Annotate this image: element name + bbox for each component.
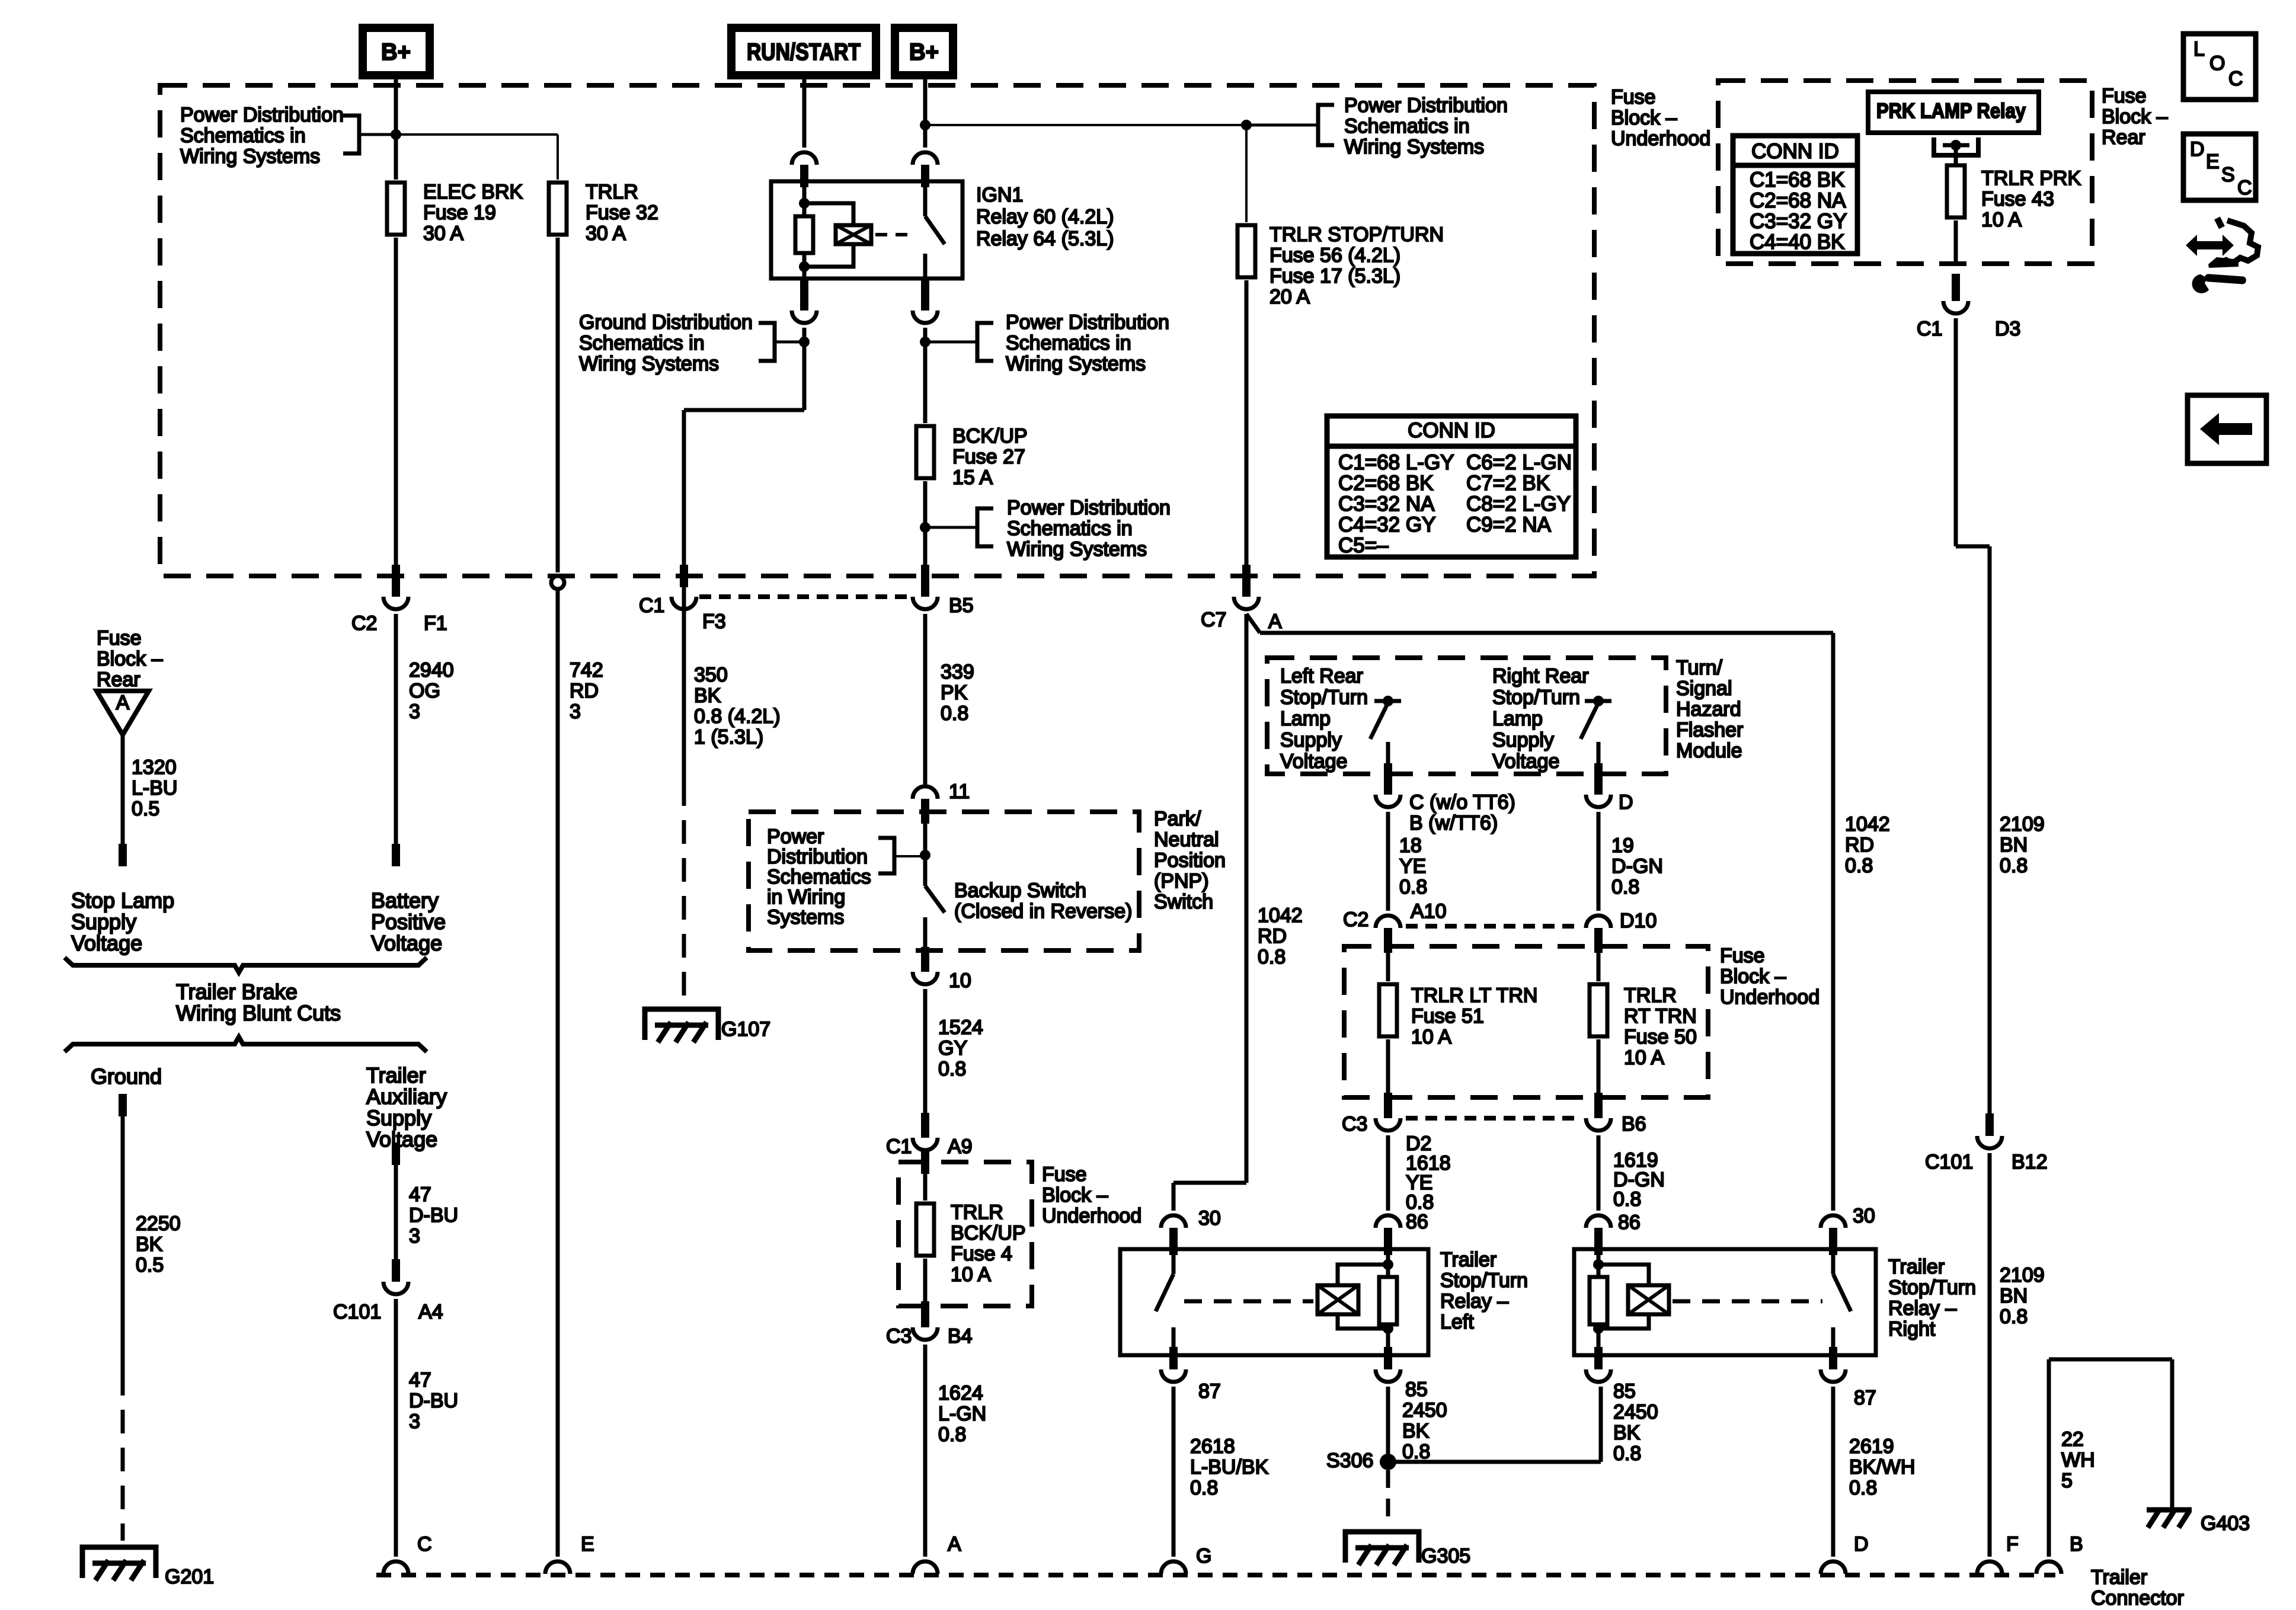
svg-text:C2=68 BK: C2=68 BK <box>1338 472 1434 495</box>
svg-text:G403: G403 <box>2201 1512 2250 1535</box>
svg-text:Underhood: Underhood <box>1611 127 1710 150</box>
connector terminal B <box>2036 1533 2083 1574</box>
backup switch dashed box <box>749 812 1139 950</box>
svg-text:30 A: 30 A <box>586 222 626 245</box>
svg-text:Turn/: Turn/ <box>1676 657 1723 679</box>
svg-text:0.8: 0.8 <box>1402 1441 1430 1463</box>
svg-text:1042: 1042 <box>1258 904 1303 927</box>
svg-text:Fuse 51: Fuse 51 <box>1411 1005 1484 1028</box>
svg-text:47: 47 <box>409 1369 431 1391</box>
wire 1042 RD right branch <box>1246 614 1890 1211</box>
svg-text:S306: S306 <box>1326 1449 1373 1472</box>
svg-text:A: A <box>1268 610 1282 633</box>
wire dashed to G107 <box>682 782 686 1007</box>
connector pin 85 relay right <box>1586 1347 1636 1403</box>
svg-text:2940: 2940 <box>409 659 454 681</box>
node splice S306 <box>1326 1449 1396 1472</box>
svg-text:BN: BN <box>2000 1285 2028 1307</box>
ground G305 <box>1345 1532 1470 1567</box>
svg-text:C4=32 GY: C4=32 GY <box>1338 513 1435 536</box>
wire fuse 50 down <box>1594 1039 1603 1118</box>
svg-text:Neutral: Neutral <box>1154 828 1219 851</box>
wire 2618 L-BU/BK 0.8 <box>1173 1387 1269 1557</box>
svg-text:10: 10 <box>949 969 971 992</box>
fuse block rear dashed box <box>1718 81 2092 264</box>
relay IGN1 box <box>771 181 962 279</box>
relay right coil resistor <box>1590 1250 1607 1355</box>
label Fuse Block - Underhood (backup fuse) <box>1042 1163 1141 1227</box>
svg-text:IGN1: IGN1 <box>976 184 1023 206</box>
svg-text:87: 87 <box>1198 1380 1221 1403</box>
switch left turn output <box>1370 696 1401 774</box>
svg-text:Stop/Turn: Stop/Turn <box>1492 686 1580 709</box>
relay left coil winding <box>1318 1265 1388 1329</box>
svg-text:L: L <box>2193 38 2205 60</box>
svg-text:B: B <box>2070 1533 2083 1555</box>
wire dashed S306 to G305 <box>1386 1470 1390 1526</box>
connector C7/A <box>1201 597 1282 633</box>
svg-text:1042: 1042 <box>1845 813 1890 836</box>
node junction TRLR STOP/TURN feed <box>1241 120 1252 130</box>
wire to TRLR fuse 32 <box>396 135 558 180</box>
node fuse block rear terminal A (triangle) <box>97 691 149 735</box>
callout Power Distribution Schematics (right top) <box>1246 94 1508 158</box>
svg-text:Supply: Supply <box>1492 729 1554 751</box>
svg-text:G201: G201 <box>165 1566 214 1588</box>
relay IGN1 mech link <box>875 233 913 236</box>
svg-text:20 A: 20 A <box>1269 286 1310 308</box>
svg-text:Schematics in: Schematics in <box>1007 517 1133 540</box>
svg-text:Wiring Systems: Wiring Systems <box>1007 538 1147 561</box>
svg-text:E: E <box>2206 151 2220 173</box>
boundary dotted line A10-D10 <box>1406 924 1581 929</box>
node junction backup switch <box>920 850 930 860</box>
svg-text:Flasher: Flasher <box>1676 719 1743 741</box>
label Fuse Block - Underhood (top right) <box>1611 86 1710 150</box>
fuse TRLR PRK Fuse 43 10A <box>1947 145 2081 231</box>
table CONN ID (fuse block underhood) <box>1327 416 1576 557</box>
svg-text:3: 3 <box>570 700 581 723</box>
label Trailer Stop/Turn Relay - Left <box>1440 1249 1528 1333</box>
icon LOC box <box>2183 34 2256 100</box>
fuse TRLR Fuse 32 30A <box>549 181 658 245</box>
power terminal B+ (center) <box>895 28 953 75</box>
svg-text:Positive: Positive <box>371 910 446 934</box>
connector terminal F <box>1977 1533 2019 1574</box>
svg-text:0.8: 0.8 <box>1613 1442 1641 1465</box>
svg-text:D-GN: D-GN <box>1611 855 1663 878</box>
svg-text:Auxiliary: Auxiliary <box>366 1084 447 1109</box>
svg-text:Trailer: Trailer <box>2091 1566 2147 1589</box>
svg-text:TRLR: TRLR <box>1624 984 1677 1007</box>
wire 19 D-GN 0.8 <box>1598 812 1663 911</box>
svg-text:D3: D3 <box>1995 318 2020 340</box>
brace lower <box>65 1037 427 1052</box>
connector terminal G <box>1161 1545 1211 1574</box>
wire relay 85 to G107 <box>680 328 804 782</box>
svg-text:A: A <box>116 692 130 714</box>
wire B+ feed to right <box>925 124 1246 126</box>
svg-text:Fuse 4: Fuse 4 <box>951 1243 1012 1265</box>
svg-text:2450: 2450 <box>1402 1399 1447 1422</box>
svg-text:C1: C1 <box>639 594 664 617</box>
svg-text:Schematics in: Schematics in <box>579 332 705 354</box>
svg-text:Trailer: Trailer <box>366 1063 426 1087</box>
fuse TRLR LT TRN Fuse 51 10A <box>1379 950 1537 1048</box>
svg-text:Rear: Rear <box>97 668 140 691</box>
svg-text:Schematics in: Schematics in <box>1344 115 1470 137</box>
svg-text:85: 85 <box>1613 1380 1636 1403</box>
label Fuse Block - Underhood (turn fuses) <box>1720 945 1819 1009</box>
svg-text:Systems: Systems <box>767 906 844 929</box>
svg-text:Lamp: Lamp <box>1492 708 1543 730</box>
svg-text:Lamp: Lamp <box>1280 708 1331 730</box>
svg-text:F3: F3 <box>702 610 726 633</box>
svg-text:0.8: 0.8 <box>1849 1477 1877 1499</box>
svg-text:C5=–: C5=– <box>1338 534 1389 557</box>
svg-text:Park/: Park/ <box>1154 808 1201 830</box>
switch right turn output <box>1581 696 1611 774</box>
svg-text:0.8: 0.8 <box>1190 1477 1218 1499</box>
svg-text:Voltage: Voltage <box>366 1127 437 1151</box>
svg-text:1524: 1524 <box>938 1016 983 1039</box>
svg-text:0.8: 0.8 <box>1258 946 1285 968</box>
svg-text:in Wiring: in Wiring <box>767 886 845 908</box>
svg-text:BK: BK <box>1402 1420 1430 1442</box>
svg-text:11: 11 <box>949 780 970 803</box>
fuse TRLR STOP/TURN Fuse 56/17 20A <box>1237 125 1444 308</box>
svg-text:Battery: Battery <box>371 888 439 913</box>
svg-text:1624: 1624 <box>938 1382 983 1404</box>
svg-text:22: 22 <box>2061 1428 2084 1451</box>
svg-text:0.5: 0.5 <box>132 798 159 820</box>
svg-text:TRLR LT TRN: TRLR LT TRN <box>1411 984 1537 1007</box>
svg-text:A: A <box>948 1533 961 1555</box>
svg-text:TRLR PRK: TRLR PRK <box>1981 167 2081 190</box>
svg-text:Left: Left <box>1440 1311 1474 1333</box>
svg-text:G305: G305 <box>1421 1545 1470 1567</box>
svg-text:Voltage: Voltage <box>1280 750 1347 773</box>
label IGN1 Relay 60/64 <box>976 184 1114 250</box>
svg-text:Fuse 27: Fuse 27 <box>952 446 1025 468</box>
wire 1524 GY 0.8 <box>921 989 983 1138</box>
svg-text:Wiring Systems: Wiring Systems <box>579 353 719 375</box>
svg-text:B+: B+ <box>381 39 411 65</box>
svg-text:C101: C101 <box>1925 1151 1973 1173</box>
svg-text:0.8: 0.8 <box>2000 854 2028 877</box>
label Trailer Auxiliary Supply Voltage <box>366 1063 447 1151</box>
relay PRK LAMP terminal <box>1934 137 1978 155</box>
svg-text:3: 3 <box>409 700 420 723</box>
svg-text:C (w/o TT6): C (w/o TT6) <box>1409 791 1515 814</box>
wire BCKUP fuse down <box>921 481 929 597</box>
svg-text:0.8: 0.8 <box>1845 854 1873 877</box>
connector pin 30 IGN1 right <box>913 152 938 187</box>
connector D10 <box>1586 910 1657 953</box>
connector C2/F1 <box>351 597 447 635</box>
label Battery Positive Voltage <box>371 888 446 955</box>
svg-text:Block –: Block – <box>1611 107 1677 129</box>
wire 2109 BN 0.8 lower <box>1990 1153 2045 1557</box>
svg-text:C7=2 BK: C7=2 BK <box>1466 472 1550 495</box>
svg-text:BK/WH: BK/WH <box>1849 1456 1915 1478</box>
svg-text:C8=2 L-GY: C8=2 L-GY <box>1466 492 1571 516</box>
svg-text:PRK LAMP Relay: PRK LAMP Relay <box>1876 100 2026 123</box>
svg-text:BN: BN <box>2000 834 2028 856</box>
svg-text:RD: RD <box>1845 834 1874 856</box>
svg-text:3: 3 <box>409 1225 420 1247</box>
svg-text:Signal: Signal <box>1676 677 1732 700</box>
svg-text:C1=68 L-GY: C1=68 L-GY <box>1338 451 1454 474</box>
power terminal RUN/START <box>731 28 876 75</box>
label Trailer Stop/Turn Relay - Right <box>1888 1256 1976 1340</box>
svg-text:G: G <box>1196 1545 1211 1567</box>
connector pin 86 IGN1 left <box>792 152 817 187</box>
svg-text:2450: 2450 <box>1613 1401 1658 1423</box>
svg-text:87: 87 <box>1854 1387 1876 1409</box>
svg-text:C2=68 NA: C2=68 NA <box>1750 189 1846 212</box>
relay IGN1 switch <box>925 181 945 279</box>
svg-text:CONN ID: CONN ID <box>1408 419 1495 442</box>
svg-text:Block –: Block – <box>2102 105 2168 128</box>
svg-text:C9=2 NA: C9=2 NA <box>1466 513 1552 536</box>
connector pin 86 relay left <box>1376 1215 1400 1255</box>
label Trailer Brake Wiring Blunt Cuts <box>176 980 341 1025</box>
fuse TRLR BCK/UP Fuse 4 10A <box>916 1201 1026 1286</box>
wire ELEC BRK fuse down to boundary <box>392 238 400 597</box>
wire relay 87 down <box>923 328 928 423</box>
svg-text:0.8: 0.8 <box>1613 1188 1641 1211</box>
connector C3 (turn) <box>1342 1113 1400 1135</box>
connector C2/A10 <box>1343 900 1447 953</box>
wire 18 YE 0.8 <box>1388 812 1427 911</box>
svg-text:2109: 2109 <box>2000 1264 2045 1286</box>
wire 339 PK 0.8 <box>925 614 974 785</box>
turn signal flasher module dashed box <box>1267 658 1666 774</box>
svg-text:Left Rear: Left Rear <box>1280 665 1363 687</box>
svg-text:Distribution: Distribution <box>767 846 868 868</box>
svg-text:Power Distribution: Power Distribution <box>1007 497 1171 519</box>
svg-text:85: 85 <box>1405 1378 1428 1401</box>
svg-text:BCK/UP: BCK/UP <box>952 425 1028 447</box>
boundary dotted line C3-B6 <box>1406 1116 1581 1121</box>
connector pin 30 relay right <box>1821 1205 1875 1255</box>
svg-text:C2: C2 <box>351 612 377 635</box>
svg-text:Trailer: Trailer <box>1888 1256 1945 1278</box>
connector B5 <box>913 594 974 617</box>
svg-text:C3=32 NA: C3=32 NA <box>1338 492 1435 516</box>
relay trailer stop/turn left box <box>1120 1249 1428 1355</box>
svg-text:1 (5.3L): 1 (5.3L) <box>694 726 763 748</box>
svg-text:(PNP): (PNP) <box>1154 870 1209 892</box>
svg-text:Right: Right <box>1888 1318 1936 1340</box>
fuse block underhood dashed box (turn fuses) <box>1344 946 1708 1097</box>
svg-text:86: 86 <box>1406 1211 1428 1233</box>
label Ground <box>91 1064 162 1089</box>
callout Power Distribution Schematics (lower) <box>925 497 1171 561</box>
svg-text:B4: B4 <box>948 1325 973 1347</box>
fuse block underhood dashed box (backup fuse) <box>898 1162 1032 1306</box>
svg-text:1320: 1320 <box>132 756 177 779</box>
svg-text:B (w/TT6): B (w/TT6) <box>1409 812 1498 834</box>
svg-text:Block –: Block – <box>97 648 163 670</box>
svg-text:E: E <box>581 1533 594 1555</box>
fuse block underhood dashed box <box>160 85 1594 576</box>
svg-text:0.5: 0.5 <box>136 1254 164 1276</box>
ground G107 <box>645 1009 770 1042</box>
svg-text:C3: C3 <box>1342 1113 1367 1135</box>
wire RUN/START down <box>802 75 807 148</box>
svg-text:TRLR: TRLR <box>586 181 638 203</box>
svg-text:F1: F1 <box>424 612 447 635</box>
svg-text:2618: 2618 <box>1190 1435 1235 1458</box>
svg-text:10 A: 10 A <box>951 1263 991 1286</box>
svg-text:C3: C3 <box>886 1325 912 1347</box>
svg-text:(Closed in Reverse): (Closed in Reverse) <box>954 900 1132 923</box>
callout Ground Distribution Schematics <box>579 311 804 375</box>
connector C1/F3 <box>639 594 726 633</box>
wire TRLR STOP/TURN down <box>1242 280 1251 597</box>
svg-text:D: D <box>1619 791 1633 814</box>
svg-text:TRLR STOP/TURN: TRLR STOP/TURN <box>1269 223 1444 246</box>
wire 1624 L-GN 0.8 <box>925 1345 986 1557</box>
svg-text:A10: A10 <box>1411 900 1447 923</box>
wire 1042 RD left branch <box>1173 614 1303 1211</box>
label Left Rear Stop/Turn Lamp Supply Voltage <box>1280 665 1368 773</box>
svg-text:B+: B+ <box>909 39 939 65</box>
svg-text:0.8: 0.8 <box>2000 1305 2028 1328</box>
svg-text:YE: YE <box>1399 855 1426 878</box>
svg-text:Backup Switch: Backup Switch <box>954 879 1086 902</box>
wire 742 RD 3 <box>558 589 603 1557</box>
svg-text:30: 30 <box>1198 1207 1221 1230</box>
label Backup Switch <box>954 879 1132 923</box>
svg-text:30: 30 <box>1853 1205 1875 1227</box>
fuse BCK/UP Fuse 27 15A <box>916 425 1028 489</box>
svg-text:L-GN: L-GN <box>938 1403 986 1425</box>
connector pin 85 relay left <box>1376 1347 1428 1401</box>
svg-text:Voltage: Voltage <box>1492 750 1559 773</box>
svg-text:Fuse: Fuse <box>1042 1163 1087 1186</box>
svg-text:B6: B6 <box>1622 1113 1646 1135</box>
svg-text:2250: 2250 <box>136 1212 181 1235</box>
svg-text:350: 350 <box>694 664 728 686</box>
wire 2109 BN 0.8 <box>1956 318 2045 1136</box>
svg-text:Fuse: Fuse <box>2102 85 2147 107</box>
node open terminal circle <box>551 576 564 589</box>
svg-text:Wiring Blunt Cuts: Wiring Blunt Cuts <box>176 1001 341 1025</box>
relay PRK LAMP box <box>1868 92 2039 133</box>
fuse ELEC BRK Fuse 19 30A <box>387 181 523 245</box>
svg-text:L-BU: L-BU <box>132 777 177 799</box>
svg-text:B5: B5 <box>949 594 974 617</box>
relay left switch <box>1156 1250 1173 1355</box>
svg-text:Fuse: Fuse <box>97 627 142 649</box>
icon wrench <box>2192 274 2247 293</box>
svg-text:Power Distribution: Power Distribution <box>1344 94 1508 117</box>
svg-text:Trailer Brake: Trailer Brake <box>176 980 298 1004</box>
node junction ground dist <box>799 337 810 347</box>
svg-text:L-BU/BK: L-BU/BK <box>1190 1456 1269 1478</box>
wire B+ left down <box>394 75 398 180</box>
wire 2450 BK 0.8 left <box>1388 1387 1447 1463</box>
connector C3/B4 <box>886 1325 973 1347</box>
svg-text:A4: A4 <box>418 1301 443 1323</box>
svg-text:RD: RD <box>570 680 599 702</box>
svg-text:Ground: Ground <box>91 1064 162 1089</box>
svg-text:O: O <box>2209 52 2225 75</box>
connector pin 11 <box>913 780 970 824</box>
connector pin 86 relay right <box>1586 1215 1611 1255</box>
wire D2 1618 YE 0.8 pin86 <box>1388 1132 1451 1233</box>
svg-text:339: 339 <box>941 661 974 683</box>
svg-text:Underhood: Underhood <box>1720 986 1819 1009</box>
svg-text:Rear: Rear <box>2102 126 2145 149</box>
svg-text:0.8: 0.8 <box>1611 876 1639 898</box>
relay right coil winding <box>1598 1265 1669 1329</box>
svg-text:Power Distribution: Power Distribution <box>1006 311 1169 334</box>
svg-text:TRLR: TRLR <box>951 1201 1003 1224</box>
node junction backup lamp feed <box>920 522 930 533</box>
svg-text:Fuse 56 (4.2L): Fuse 56 (4.2L) <box>1269 244 1400 267</box>
svg-text:Voltage: Voltage <box>371 931 442 955</box>
svg-text:Stop/Turn: Stop/Turn <box>1280 686 1368 709</box>
table CONN ID (fuse block rear) <box>1733 136 1857 254</box>
svg-text:0.8 (4.2L): 0.8 (4.2L) <box>694 705 781 728</box>
svg-text:C3=32 GY: C3=32 GY <box>1750 210 1847 233</box>
svg-text:0.8: 0.8 <box>938 1058 966 1080</box>
relay right mech link <box>1673 1299 1822 1304</box>
wire S306 to right relay <box>1388 1387 1658 1465</box>
wire 1320 L-BU 0.5 <box>119 735 177 866</box>
svg-text:30 A: 30 A <box>423 222 463 245</box>
svg-text:F: F <box>2006 1533 2019 1555</box>
svg-text:RUN/START: RUN/START <box>747 39 861 65</box>
svg-text:Schematics in: Schematics in <box>180 124 306 147</box>
svg-text:WH: WH <box>2061 1449 2095 1471</box>
svg-text:15 A: 15 A <box>952 466 993 489</box>
svg-text:C6=2 L-GN: C6=2 L-GN <box>1466 451 1572 474</box>
callout Power Distribution Schematics (backup box) <box>767 825 925 929</box>
svg-text:10 A: 10 A <box>1981 209 2022 231</box>
svg-text:Supply: Supply <box>366 1106 431 1130</box>
svg-text:Relay –: Relay – <box>1440 1290 1508 1313</box>
svg-text:Fuse 50: Fuse 50 <box>1624 1026 1697 1048</box>
wire into fuse 4 <box>921 1151 929 1201</box>
label Turn/Signal Hazard Flasher Module <box>1676 657 1743 762</box>
svg-text:Module: Module <box>1676 740 1742 762</box>
svg-text:Wiring Systems: Wiring Systems <box>180 145 320 168</box>
svg-text:Block –: Block – <box>1042 1184 1108 1206</box>
svg-text:B12: B12 <box>2012 1151 2048 1173</box>
svg-text:Voltage: Voltage <box>71 931 142 955</box>
svg-text:BK: BK <box>1613 1422 1641 1444</box>
wire B+ center down <box>923 75 928 148</box>
callout Power Distribution Schematics (mid) <box>925 311 1169 375</box>
label Park/Neutral Position Switch <box>1154 808 1226 913</box>
svg-text:C1: C1 <box>1917 318 1942 340</box>
node junction B+ center <box>920 120 930 130</box>
svg-text:CONN ID: CONN ID <box>1751 140 1839 163</box>
wire 47 D-BU 3 upper <box>392 1142 458 1282</box>
wire 2619 BK/WH 0.8 <box>1833 1387 1915 1557</box>
wire fuse 51 down <box>1384 1039 1392 1118</box>
svg-text:C: C <box>417 1533 432 1555</box>
wire TRLR PRK down <box>1952 220 1960 301</box>
svg-text:Power: Power <box>767 825 824 848</box>
svg-text:C2: C2 <box>1343 908 1368 931</box>
connector pin 87 IGN1 right bottom <box>913 279 938 323</box>
